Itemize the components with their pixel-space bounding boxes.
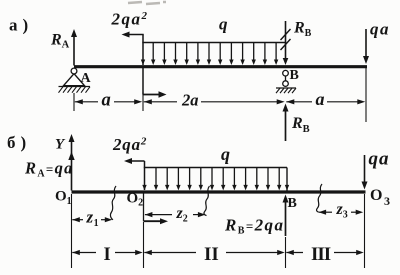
dimension line a / 2a / a (75, 99, 83, 104)
svg-text:б): б) (7, 133, 31, 152)
moment couple top arrow (a) (142, 35, 144, 66)
section III dimension (286, 250, 294, 255)
dimension z2 (145, 212, 153, 217)
svg-text:II: II (204, 244, 219, 265)
svg-text:qa: qa (370, 20, 390, 39)
svg-text:a: a (316, 89, 325, 109)
Y axis (71, 141, 73, 191)
ground hatching at B (276, 87, 296, 89)
moment couple top arrow (b) (144, 161, 146, 190)
distributed load right edge (b) (286, 168, 288, 191)
distributed load q (b): top line (144, 167, 287, 169)
beam b) (72, 190, 366, 193)
dimension z3 (319, 210, 327, 215)
svg-text:RA=qa: RA=qa (24, 159, 74, 180)
svg-text:A: A (81, 71, 92, 86)
svg-text:z1: z1 (86, 208, 100, 230)
reaction R_B below support (a) (285, 110, 287, 141)
ground hatching at A (59, 86, 91, 88)
end force qa (a) (365, 29, 367, 57)
svg-text:2qa2: 2qa2 (111, 10, 149, 29)
svg-text:RB: RB (293, 20, 312, 40)
reaction force R_A (up arrow) (73, 36, 75, 66)
roller support B (283, 70, 289, 76)
section I dimension (72, 250, 80, 255)
svg-text:I: I (104, 245, 111, 265)
svg-text:RB: RB (291, 115, 310, 135)
pin support A (64, 74, 85, 86)
svg-text:III: III (311, 244, 331, 265)
moment couple bottom arrow (a) (142, 68, 144, 95)
distributed load q (a): top line (142, 42, 286, 44)
distributed load q (b): arrows (142, 185, 146, 191)
svg-text:B: B (290, 68, 299, 83)
section cut squiggle z2 (204, 186, 210, 216)
svg-text:2qa2: 2qa2 (112, 135, 147, 154)
svg-text:Y: Y (55, 137, 66, 153)
section cut squiggle z1 (110, 186, 116, 220)
crossed-out force R_B on beam (a) (285, 21, 287, 58)
svg-text:a: a (102, 91, 111, 111)
section extension lines (b) (71, 194, 73, 268)
svg-text:qa: qa (369, 149, 390, 170)
svg-text:O3: O3 (370, 187, 390, 208)
beam a) (74, 65, 367, 68)
dimension extension lines (a) (73, 93, 75, 111)
faint scan artifact at top edge (128, 2, 166, 4)
svg-text:z2: z2 (176, 205, 188, 225)
svg-text:RB=2qa: RB=2qa (224, 216, 284, 237)
end force qa (b) (364, 155, 366, 183)
svg-text:z3: z3 (336, 201, 348, 221)
svg-text:B: B (288, 196, 297, 211)
section II dimension (144, 250, 152, 255)
svg-text:O1: O1 (55, 189, 72, 208)
section cut squiggle z3 (317, 184, 322, 212)
svg-text:2a: 2a (181, 91, 199, 110)
svg-text:q: q (219, 15, 228, 34)
moment couple bottom arrow (b) (143, 194, 145, 222)
distributed load q (a): arrows (141, 60, 145, 66)
slashes crossing R_B (281, 29, 291, 40)
dimension z1 (72, 217, 80, 222)
reaction R_A = qa (up arrow, b) (68, 152, 74, 161)
svg-text:RA: RA (50, 32, 70, 51)
svg-text:a): a) (9, 16, 33, 35)
svg-text:q: q (221, 144, 230, 164)
reaction R_B=2qa (up arrow, b) (285, 201, 287, 236)
